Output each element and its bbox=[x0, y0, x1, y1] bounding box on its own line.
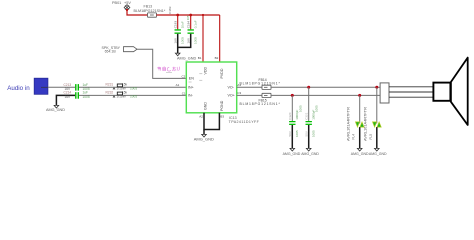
svg-text:1005: 1005 bbox=[130, 87, 137, 91]
svg-text:IN+: IN+ bbox=[188, 86, 194, 90]
svg-text:A1: A1 bbox=[176, 83, 180, 87]
svg-text:16V: 16V bbox=[65, 95, 72, 99]
svg-text:C184: C184 bbox=[186, 21, 190, 29]
svg-text:0.1uF: 0.1uF bbox=[194, 20, 198, 28]
svg-text:1005: 1005 bbox=[295, 130, 299, 137]
svg-text:R231: R231 bbox=[106, 82, 114, 86]
svg-text:C321: C321 bbox=[305, 112, 309, 120]
svg-text:654:1B: 654:1B bbox=[105, 50, 117, 54]
svg-text:1005: 1005 bbox=[311, 130, 315, 137]
svg-text:C183: C183 bbox=[168, 6, 172, 14]
svg-text:AMG_GND: AMG_GND bbox=[46, 108, 65, 112]
svg-text:1005: 1005 bbox=[181, 37, 185, 44]
svg-text:C2: C2 bbox=[182, 75, 186, 79]
svg-text:C183: C183 bbox=[173, 21, 177, 29]
svg-text:1005: 1005 bbox=[194, 37, 198, 44]
svg-text:VO-: VO- bbox=[228, 86, 235, 90]
svg-text:1005: 1005 bbox=[315, 105, 319, 112]
svg-text:BLM18PG121SN1*: BLM18PG121SN1* bbox=[240, 102, 281, 106]
svg-text:AMG_GND: AMG_GND bbox=[283, 152, 301, 156]
svg-text:16V: 16V bbox=[173, 37, 177, 43]
svg-text:+5V: +5V bbox=[124, 1, 131, 5]
svg-text:R232: R232 bbox=[106, 91, 114, 95]
svg-text:AVRL161A4R7FTR: AVRL161A4R7FTR bbox=[345, 107, 350, 141]
svg-text:105: 105 bbox=[186, 15, 190, 20]
svg-text:TPA2411D1YFF: TPA2411D1YFF bbox=[229, 120, 260, 124]
svg-text:Audio in: Audio in bbox=[7, 85, 30, 92]
svg-text:FL4: FL4 bbox=[352, 134, 356, 140]
svg-text:10uF: 10uF bbox=[181, 21, 185, 28]
svg-text:B3: B3 bbox=[220, 114, 224, 118]
svg-text:AMG_GND: AMG_GND bbox=[194, 137, 214, 142]
svg-text:PGND: PGND bbox=[220, 100, 224, 111]
svg-text:GND: GND bbox=[203, 102, 207, 110]
svg-text:AMG_GND: AMG_GND bbox=[177, 57, 196, 61]
svg-text:AMG_GND: AMG_GND bbox=[351, 152, 369, 156]
svg-text:B1: B1 bbox=[198, 56, 202, 60]
svg-text:PB01: PB01 bbox=[112, 1, 121, 5]
svg-text:BLM18PG121SN1*: BLM18PG121SN1* bbox=[134, 9, 166, 13]
svg-text:A2: A2 bbox=[199, 114, 203, 118]
svg-text:PVDD: PVDD bbox=[220, 68, 224, 78]
svg-text:1005: 1005 bbox=[298, 105, 302, 112]
svg-text:C320: C320 bbox=[288, 112, 292, 120]
svg-text:FL5: FL5 bbox=[369, 134, 373, 140]
svg-text:AMG_GND: AMG_GND bbox=[369, 152, 387, 156]
svg-text:AMG_GND: AMG_GND bbox=[301, 152, 319, 156]
svg-text:1/16W: 1/16W bbox=[117, 95, 126, 99]
svg-text:16V: 16V bbox=[186, 37, 190, 43]
svg-text:C214: C214 bbox=[64, 91, 72, 95]
svg-text:EN: EN bbox=[189, 76, 194, 80]
svg-text:IN-: IN- bbox=[188, 94, 194, 98]
svg-text:1005: 1005 bbox=[130, 95, 137, 99]
svg-text:C1: C1 bbox=[182, 92, 186, 96]
svg-text:1uF: 1uF bbox=[83, 91, 89, 95]
svg-text:BLM18PG121SN1*: BLM18PG121SN1* bbox=[240, 82, 281, 86]
svg-text:B2: B2 bbox=[215, 56, 219, 60]
svg-text:VDD: VDD bbox=[203, 67, 207, 75]
svg-text:VO+: VO+ bbox=[228, 94, 235, 98]
svg-text:C3: C3 bbox=[237, 91, 241, 95]
